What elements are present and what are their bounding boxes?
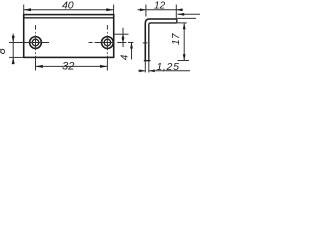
dimension 17 arrows [183, 23, 186, 61]
bend line [24, 17, 114, 19]
hole H2 inner [104, 39, 111, 46]
dimension 1,25 left arrow [139, 69, 145, 72]
svg-text:32: 32 [62, 61, 74, 73]
dimension 1,25 shelf line [149, 70, 190, 72]
hole H2 vertical centerline [106, 25, 108, 71]
dimension 8 line [12, 34, 14, 64]
dimension 1,25 left tail [138, 70, 145, 72]
dimension 4 line V2 [131, 43, 133, 60]
side view end cap [176, 19, 178, 23]
side view outer contour [145, 19, 177, 61]
dimension 40 arrows [24, 8, 114, 11]
hole H1 inner [32, 39, 39, 46]
dimension 4 extension line A [114, 33, 128, 35]
cropped leader line top right [178, 13, 201, 15]
cropped leader arrow [178, 13, 185, 16]
dimension 4 line V1 [122, 28, 124, 47]
dimension 32 line [36, 65, 108, 67]
side view hole centerline tick [143, 42, 148, 44]
dimension 17 line [183, 23, 185, 61]
dimension 1,25 right arrow [149, 69, 155, 72]
dimension 8 arrows [12, 36, 15, 64]
dimension 12 extension lines [146, 5, 176, 19]
dimension 4 arrows V1 [122, 34, 125, 42]
dimension 12 arrows [140, 8, 183, 11]
front view outline [24, 15, 114, 58]
dimension 40 line [24, 9, 114, 11]
dimension 4 arrow V2 [130, 43, 133, 49]
dimension 17 top reference (inner surface extension) [177, 22, 187, 24]
hole H2 outer [102, 37, 114, 49]
hole H1 vertical centerline [35, 25, 37, 71]
dimension 12 line [138, 9, 184, 11]
dimension 32 arrows [36, 65, 108, 68]
dimension 40 extension lines [24, 5, 114, 15]
hole H1 outer [30, 37, 42, 49]
hole H1 horizontal centerline [9, 42, 49, 44]
svg-text:12: 12 [154, 0, 166, 11]
svg-text:1,25: 1,25 [156, 61, 179, 73]
side view inner contour [149, 23, 177, 61]
svg-text:17: 17 [171, 33, 182, 45]
dimension 17 bottom extension [178, 60, 190, 62]
side view bottom edge [144, 60, 151, 62]
svg-text:4: 4 [120, 54, 131, 60]
hole H2 horizontal centerline [89, 42, 134, 44]
dimension 17 top extension (outer surface) [177, 17, 196, 19]
dimension 1,25 extension lines [145, 61, 149, 73]
svg-text:40: 40 [62, 0, 74, 12]
dimension 8 extension line bottom [9, 56, 24, 58]
svg-text:8: 8 [0, 48, 8, 54]
